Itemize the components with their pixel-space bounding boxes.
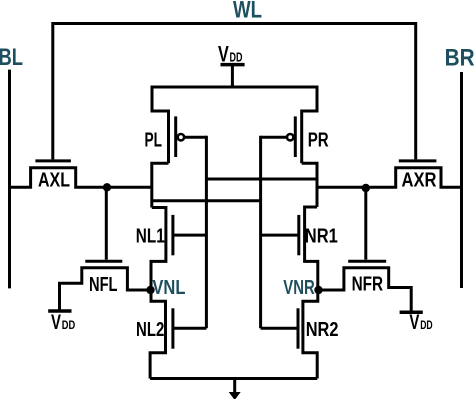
transistor NFR gate lead [364, 188, 367, 260]
node B dot (AXR/NFR tap) [362, 184, 370, 192]
power VDD top bar [221, 63, 245, 67]
wire VDD lead [231, 65, 234, 87]
transistor AXR [399, 159, 437, 162]
svg-text:NFR: NFR [352, 274, 384, 296]
wire left gate net vertical [205, 136, 208, 329]
svg-text:PR: PR [308, 129, 329, 151]
transistor NR1 channel and stack wires to VNR and NR2 [303, 207, 318, 379]
svg-text:NR1: NR1 [305, 226, 338, 248]
wire VDD rail with drops to PL and PR sources [152, 87, 317, 111]
svg-text:VNL: VNL [152, 276, 185, 299]
svg-text:BL: BL [0, 44, 23, 71]
transistor PL bubble [178, 134, 184, 140]
svg-text:NR2: NR2 [306, 319, 339, 341]
svg-text:NL1: NL1 [136, 226, 165, 248]
transistor NFR gate bar [348, 260, 386, 263]
wire BL to AXL to node A [10, 168, 152, 188]
wire PR gate lead [261, 136, 287, 139]
wire PL gate lead [184, 136, 206, 139]
wire BR vertical [460, 72, 463, 288]
wire right column to AXR to BR [317, 168, 463, 188]
svg-text:DD: DD [62, 318, 76, 332]
svg-text:NL2: NL2 [136, 319, 164, 341]
transistor NR1 gate bar [297, 215, 300, 255]
transistor NL2 gate bar [171, 308, 174, 348]
transistor PR bubble [287, 134, 293, 140]
svg-text:V: V [51, 311, 61, 334]
transistor PR channel [300, 110, 303, 164]
svg-text:NFL: NFL [89, 274, 118, 296]
svg-text:VNR: VNR [283, 276, 315, 299]
svg-text:AXR: AXR [402, 170, 437, 192]
wire cross line 2 [152, 199, 261, 202]
svg-text:BR: BR [445, 45, 474, 72]
wire WL horizontal + verticals [53, 24, 416, 160]
svg-text:AXL: AXL [38, 170, 70, 192]
ground arrow [229, 392, 241, 399]
wire PR drain to right column [302, 163, 317, 207]
ground stem [233, 379, 236, 393]
power VDD left bar [48, 309, 71, 313]
wire PL drain to left column [152, 163, 169, 207]
power VDD right bar [400, 311, 423, 315]
transistor NL1 channel and stack wires to VNL and NL2 [150, 208, 166, 379]
transistor PL channel [167, 110, 170, 164]
node A dot [103, 183, 111, 191]
wire ground rail [150, 377, 317, 380]
transistor NL1 gate bar [171, 215, 174, 255]
svg-text:V: V [409, 311, 419, 334]
transistor AXL [35, 159, 71, 162]
wire cross line 1 [206, 178, 317, 181]
wire NL1 gate lead [173, 234, 207, 237]
node VNR dot [314, 286, 322, 294]
transistor NFL gate lead [105, 187, 108, 259]
svg-text:DD: DD [420, 318, 433, 332]
svg-text:WL: WL [233, 0, 262, 24]
svg-text:DD: DD [230, 51, 243, 65]
transistor NFL body and leads [60, 268, 151, 311]
wire NR1 gate lead [261, 234, 299, 237]
transistor PR gate bar [294, 116, 297, 157]
transistor PL gate bar [174, 116, 177, 157]
transistor NFL gate bar [85, 260, 122, 263]
wire NR2 gate lead [261, 327, 298, 330]
wire BL vertical [8, 70, 11, 289]
transistor NFR body and leads [319, 268, 412, 312]
wire right gate net vertical [259, 136, 262, 329]
svg-text:V: V [218, 42, 229, 67]
svg-text:PL: PL [145, 129, 163, 151]
wire NL2 gate lead [173, 327, 207, 330]
node VNL dot [146, 286, 154, 294]
transistor NR2 gate bar [297, 308, 300, 348]
